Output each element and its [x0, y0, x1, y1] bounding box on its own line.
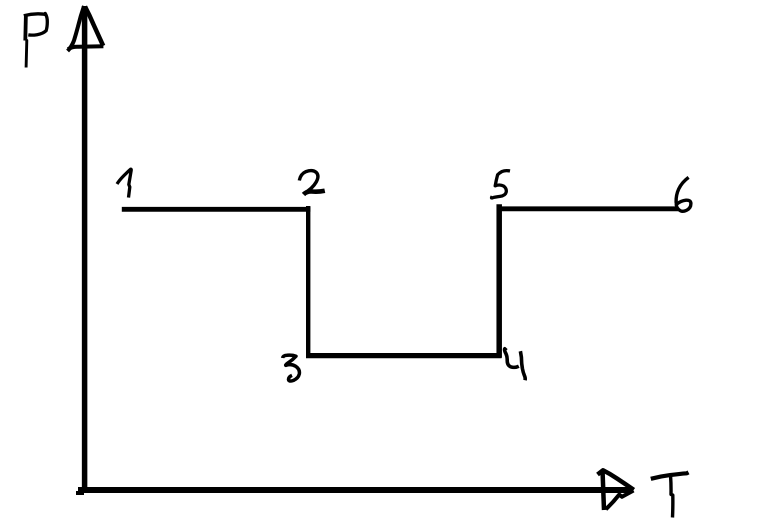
node label 1: [117, 169, 131, 197]
T axis arrowhead: [598, 470, 634, 510]
wire 5-6: [498, 206, 679, 211]
P axis arrowhead: [68, 6, 104, 51]
node label 2: [299, 171, 325, 195]
P axis (vertical): [82, 6, 88, 492]
wire 4-5: [496, 204, 502, 357]
T axis label: [651, 472, 689, 517]
T axis (horizontal): [78, 487, 633, 493]
P axis label: [24, 13, 48, 67]
node label 6: [676, 177, 691, 211]
node label 3: [283, 355, 300, 381]
node label 4: [505, 349, 526, 380]
wire 1-2: [122, 207, 311, 212]
T axis left stub: [76, 491, 84, 495]
node label 5: [492, 171, 511, 198]
wire 3-4: [306, 353, 502, 358]
wire 2-3: [306, 206, 310, 358]
